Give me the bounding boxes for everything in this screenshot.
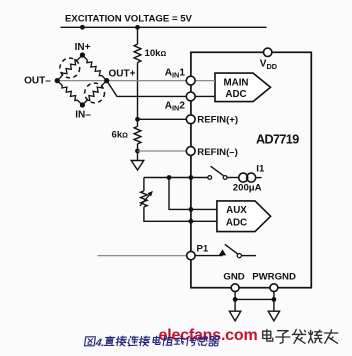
- node OUT-: [55, 78, 60, 83]
- wire switch to I1: [227, 177, 239, 179]
- junction chip edge I1: [189, 175, 194, 180]
- wire bridge output (gray): [57, 80, 186, 82]
- wire gnd bond: [235, 298, 274, 300]
- svg-text:OUT+: OUT+: [109, 68, 136, 79]
- wire AIN1 to MAIN ADC: [195, 80, 215, 82]
- pin P1: [187, 251, 195, 259]
- resistor 6k: [134, 126, 141, 143]
- svg-text:IN–: IN–: [75, 109, 91, 120]
- IC AD7719 outline: [191, 52, 311, 287]
- node IN-: [80, 102, 85, 107]
- caption: 图4. 直接连接电阻式传感器 (hand-drawn glyphs): [84, 336, 219, 349]
- svg-text:AD7719: AD7719: [256, 132, 299, 146]
- pin VDD: [264, 48, 272, 56]
- svg-text:I1: I1: [256, 163, 265, 174]
- block AUX ADC: [217, 201, 271, 232]
- variable arc bottom-right: [85, 83, 105, 103]
- svg-text:REFIN(+): REFIN(+): [197, 115, 238, 126]
- junction refin-: [135, 149, 140, 154]
- switch P1 arrowhead: [219, 249, 227, 255]
- svg-text:ADC: ADC: [225, 89, 246, 100]
- pin AIN2: [186, 92, 195, 101]
- pin REFIN-: [186, 147, 195, 156]
- svg-text:AIN1: AIN1: [165, 67, 186, 79]
- resistor 10k: [134, 44, 141, 62]
- wire GND tail: [234, 292, 236, 312]
- junction chip edge aux2: [189, 219, 194, 224]
- current source I1 circle A: [239, 173, 248, 182]
- junction refin+: [135, 117, 140, 122]
- svg-text:OUT–: OUT–: [24, 76, 51, 87]
- resistor variable: [141, 191, 148, 207]
- switch P1 contact: [237, 254, 241, 258]
- svg-text:VDD: VDD: [260, 59, 277, 71]
- wire excitation rail: [61, 26, 267, 28]
- svg-text:6kΩ: 6kΩ: [112, 129, 129, 140]
- switch I1 contact right: [223, 176, 227, 180]
- ground GND: [229, 311, 240, 321]
- svg-text:REFIN(–): REFIN(–): [197, 147, 238, 158]
- wire divider mid: [137, 63, 139, 127]
- block MAIN ADC: [215, 73, 271, 102]
- brand text: 电子发烧友 (hand-drawn glyphs): [263, 330, 273, 342]
- wire divider top: [137, 27, 139, 44]
- ground divider: [131, 161, 144, 171]
- svg-text:4.: 4.: [94, 337, 105, 349]
- wire P1 switch out: [241, 255, 256, 257]
- pin REFIN+: [186, 115, 195, 124]
- resistor bridge top-left: [57, 55, 82, 81]
- junction gnd left: [233, 297, 238, 302]
- wire refin-: [138, 150, 187, 152]
- pin PWRGND: [270, 284, 278, 292]
- svg-text:IN+: IN+: [75, 42, 91, 53]
- wire var-res bottom: [144, 207, 217, 221]
- switch I1 lever: [211, 166, 224, 176]
- svg-text:GND: GND: [223, 272, 244, 283]
- variable arc top-left: [60, 58, 80, 78]
- svg-text:200μA: 200μA: [233, 182, 262, 193]
- switch I1 contact left: [208, 176, 212, 180]
- wire aux sense: [144, 177, 208, 179]
- svg-text:10kΩ: 10kΩ: [145, 48, 167, 59]
- switch P1 lever: [225, 244, 238, 254]
- pin AIN1: [186, 76, 195, 85]
- wire refin+: [138, 118, 187, 120]
- junction gnd right: [272, 297, 277, 302]
- node OUT+: [104, 78, 109, 83]
- wire OUT+ to AIN2: [107, 81, 187, 97]
- wire AIN2 to MAIN ADC: [195, 95, 215, 97]
- pin GND: [231, 284, 239, 292]
- wire P1 external (gray): [98, 255, 187, 257]
- svg-text:PWRGND: PWRGND: [252, 272, 296, 283]
- junction var-res top: [167, 175, 172, 180]
- svg-text:P1: P1: [197, 243, 209, 254]
- wire aux input 1: [169, 178, 217, 210]
- arrow variable resistor: [140, 194, 151, 206]
- wire I1 stub: [256, 177, 262, 179]
- resistor bridge bottom-left: [57, 81, 82, 105]
- svg-text:EXCITATION VOLTAGE = 5V: EXCITATION VOLTAGE = 5V: [65, 14, 193, 25]
- wire var-res top: [143, 178, 145, 191]
- ground PWRGND: [268, 311, 279, 321]
- wire PWRGND tail: [273, 292, 275, 312]
- svg-text:MAIN: MAIN: [223, 77, 248, 88]
- svg-text:AUX: AUX: [226, 205, 247, 216]
- junction excitation-divider: [135, 25, 140, 30]
- node IN+: [80, 52, 85, 57]
- svg-text:elecfans.com: elecfans.com: [159, 327, 258, 344]
- resistor bridge top-right: [82, 55, 106, 81]
- svg-text:AIN2: AIN2: [165, 100, 186, 112]
- wire divider bottom: [137, 144, 139, 161]
- svg-text:ADC: ADC: [226, 218, 247, 229]
- junction excitation-bridge: [80, 25, 85, 30]
- junction chip edge aux1: [189, 207, 194, 212]
- wire P1 to switch: [195, 255, 223, 257]
- current source I1 circle B: [247, 173, 256, 182]
- resistor bridge bottom-right: [82, 81, 106, 105]
